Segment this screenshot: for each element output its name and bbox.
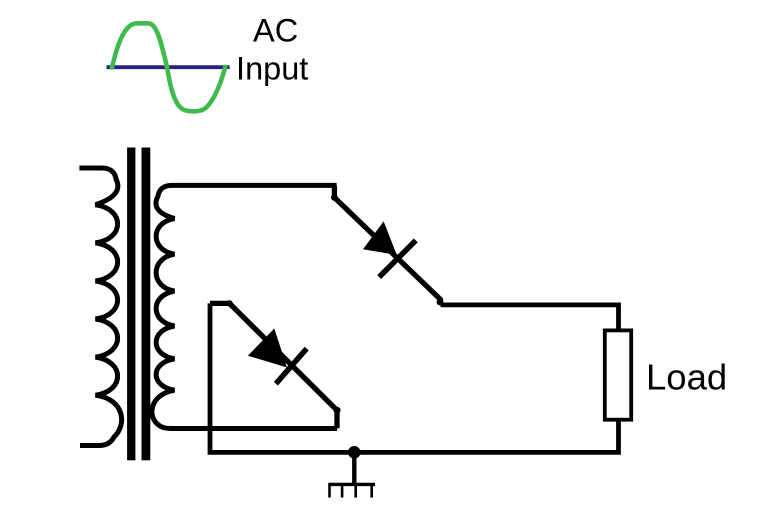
svg-text:AC: AC [253, 13, 298, 49]
svg-text:Load: Load [646, 357, 727, 398]
svg-text:Input: Input [236, 51, 308, 87]
